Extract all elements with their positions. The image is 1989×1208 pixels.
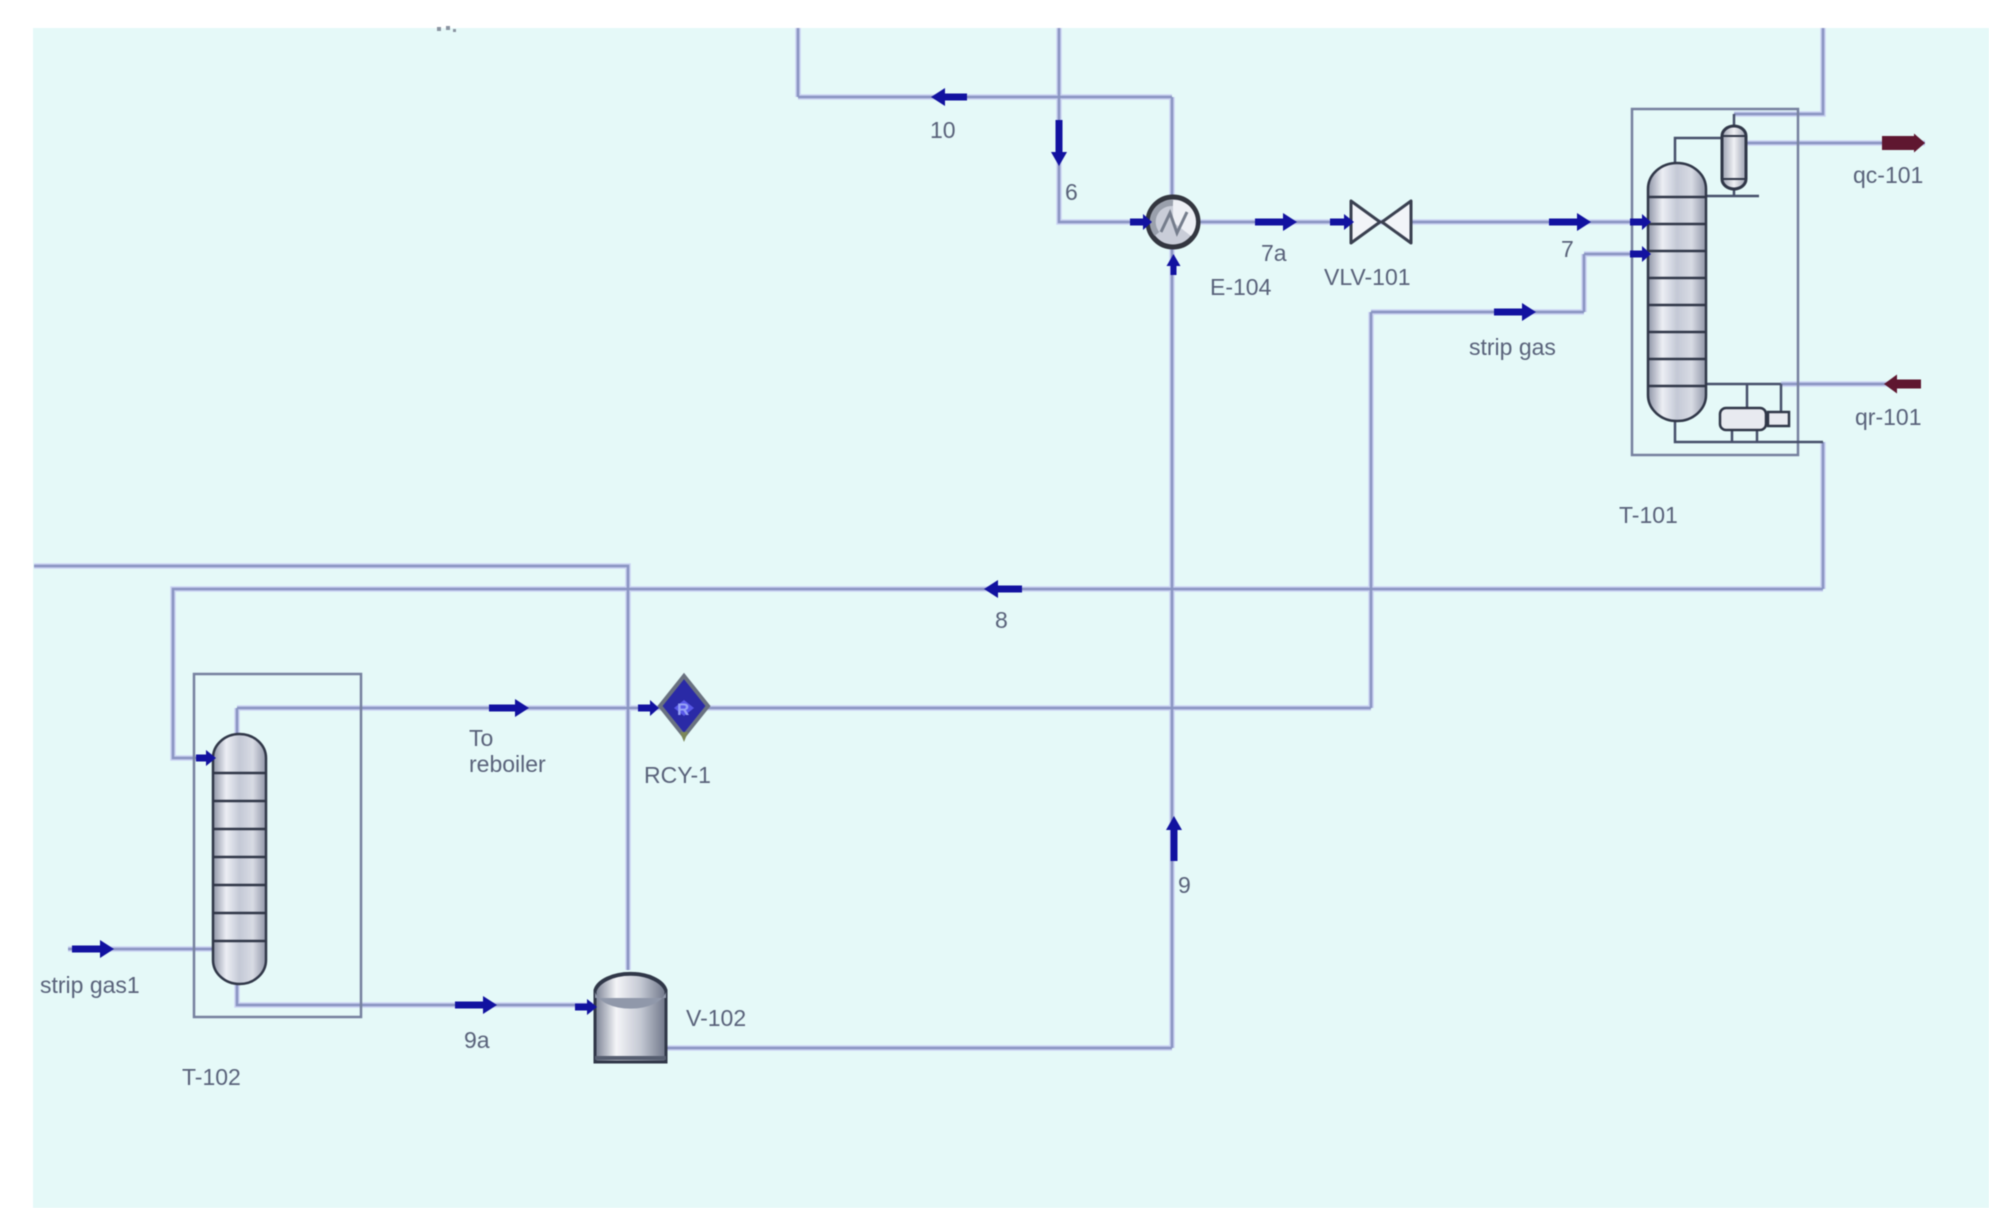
- wire T-101 bottoms draw to reboiler: [1704, 383, 1781, 386]
- T-102 sub-flowsheet box: [194, 674, 361, 1017]
- arrow into T-101 feed (right): [1630, 214, 1651, 230]
- wire T-101 lower feed: [1584, 253, 1643, 256]
- wire stream10 riser: [797, 28, 800, 97]
- wire T-101 lower feed: [1584, 251, 1643, 257]
- wire strip gas horizontal: [1371, 309, 1584, 315]
- wire RCY-1 inlet from T-102 top: [237, 705, 662, 711]
- arrow into RCY-1 (right): [638, 700, 659, 716]
- svg-text:T-101: T-101: [1619, 502, 1678, 528]
- wire qc-101 energy: [1746, 142, 1925, 145]
- svg-text:qr-101: qr-101: [1855, 404, 1921, 430]
- column T-101 body: [1648, 163, 1706, 421]
- wire strip gas1 feed: [68, 946, 213, 952]
- wire RCY-1 outlet: [706, 705, 1371, 711]
- wire reboiler stubs down: [1731, 429, 1734, 442]
- svg-text:strip gas1: strip gas1: [40, 972, 140, 998]
- wire upper horizontal to V-102: [34, 566, 628, 970]
- reboiler of T-101: [1720, 408, 1789, 430]
- svg-text:7: 7: [1561, 236, 1574, 262]
- arrow up below E-104: [1167, 254, 1181, 275]
- arrow into V-102 (right): [575, 999, 597, 1015]
- svg-text:6: 6: [1065, 179, 1078, 205]
- arrow stream 9a (right): [455, 996, 497, 1014]
- svg-text:To: To: [469, 725, 493, 751]
- svg-text:qc-101: qc-101: [1853, 162, 1923, 188]
- arrow qc-101 (right): [1882, 134, 1925, 153]
- arrow strip gas (right): [1494, 303, 1536, 321]
- wire stream8 riser from T-101 bottoms: [1822, 442, 1825, 589]
- wire upper horizontal to V-102: [34, 566, 628, 970]
- T-101 sub-flowsheet box: [1632, 109, 1798, 455]
- wire T-102 overhead stub: [236, 708, 239, 734]
- arrow stream 7 (right): [1549, 213, 1591, 231]
- trays T-102: [213, 773, 266, 941]
- wire strip gas riser: [1583, 254, 1586, 312]
- wire RCY-1 outlet: [706, 707, 1371, 710]
- arrow To reboiler (right): [489, 699, 529, 717]
- svg-text:7a: 7a: [1261, 240, 1287, 266]
- wire qr-101 energy: [1781, 381, 1916, 387]
- arrow into VLV-101 (right): [1330, 214, 1354, 230]
- svg-text:reboiler: reboiler: [469, 751, 546, 777]
- arrow stream 8 into T-102 (right): [196, 750, 216, 766]
- artifact dots top: [437, 26, 456, 32]
- wire condenser reflux return: [1733, 186, 1736, 196]
- wire T-101 bottom product: [1675, 421, 1823, 442]
- column T-102 body: [213, 734, 266, 984]
- wire stream10 horizontal: [798, 96, 1172, 99]
- wire strip gas horizontal: [1371, 311, 1584, 314]
- svg-text:R: R: [677, 700, 689, 719]
- svg-text:8: 8: [995, 607, 1008, 633]
- wire qr-101 energy: [1781, 383, 1916, 386]
- wire stream8 long: [173, 589, 1823, 758]
- arrow stream 9 (up): [1166, 816, 1182, 861]
- wire T-102 overhead stub: [234, 708, 240, 734]
- wire V-102 outlet: [666, 1045, 1172, 1051]
- wire condenser overhead: [1734, 28, 1823, 114]
- wire stream6: [1059, 28, 1148, 222]
- arrow into T-101 lower feed (right): [1630, 246, 1651, 262]
- wire recycle riser: [1370, 312, 1373, 708]
- wire stream 7a/7: [1198, 219, 1648, 225]
- trays T-101: [1648, 197, 1706, 386]
- arrow stream 8 (left): [984, 580, 1022, 598]
- wire stream 9a: [237, 983, 593, 1005]
- wire RCY-1 inlet from T-102 top: [237, 707, 662, 710]
- svg-text:10: 10: [930, 117, 956, 143]
- wire recycle riser: [1368, 312, 1374, 708]
- wire stream9/10 vertical through E-104: [1169, 97, 1175, 1048]
- arrow strip gas1 (right): [72, 940, 114, 958]
- wire strip gas riser: [1581, 254, 1587, 312]
- svg-text:E-104: E-104: [1210, 274, 1272, 300]
- svg-text:T-102: T-102: [182, 1064, 241, 1090]
- arrow into E-104 (right): [1130, 214, 1152, 230]
- wire stream 9a: [237, 983, 593, 1005]
- wire condenser vapour stub: [1733, 114, 1736, 126]
- wire stream 7a/7: [1198, 221, 1648, 224]
- wire V-102 outlet: [666, 1047, 1172, 1050]
- wire stream10 horizontal: [798, 94, 1172, 100]
- svg-text:9: 9: [1178, 872, 1191, 898]
- arrow stream 7a (right): [1255, 213, 1297, 231]
- arrow stream 10 (left): [931, 88, 967, 106]
- wire condenser overhead: [1734, 28, 1823, 114]
- wire strip gas1 feed: [68, 948, 213, 951]
- wire T-101 overhead to condenser: [1675, 138, 1722, 164]
- wire stream10 riser: [795, 28, 801, 97]
- svg-text:strip gas: strip gas: [1469, 334, 1556, 360]
- arrow stream 6 (down): [1051, 120, 1067, 166]
- wire stream8 riser from T-101 bottoms: [1820, 442, 1826, 589]
- wire stream6: [1059, 28, 1148, 222]
- condenser of T-101: [1722, 126, 1746, 189]
- svg-text:9a: 9a: [464, 1027, 490, 1053]
- wire stream8 long: [173, 589, 1823, 758]
- wire qc-101 energy: [1746, 140, 1925, 146]
- arrow qr-101 (left): [1884, 375, 1921, 394]
- wire stream9/10 vertical through E-104: [1171, 97, 1174, 1048]
- svg-text:V-102: V-102: [686, 1005, 746, 1031]
- svg-text:VLV-101: VLV-101: [1324, 264, 1411, 290]
- svg-text:RCY-1: RCY-1: [644, 762, 711, 788]
